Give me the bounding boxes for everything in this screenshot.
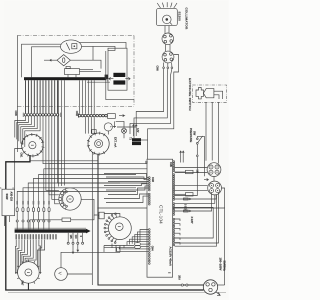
- wire CN6 lead 2: [167, 67, 169, 69]
- connector P3 receptacle: [59, 188, 81, 210]
- voltmeter V: [55, 268, 68, 281]
- wire bundle CN8 to P3 region: [43, 116, 120, 164]
- transformer T2: [132, 138, 141, 141]
- connector strip CN8: [23, 113, 61, 117]
- wire CTL to D 1: [175, 167, 208, 169]
- svg-text:180~260V: 180~260V: [218, 258, 222, 271]
- svg-text:CN5: CN5: [169, 162, 172, 167]
- wire diamond left: [44, 59, 57, 61]
- connector P2 receptacle: [88, 133, 109, 154]
- CTL right pin column: [173, 161, 175, 163]
- wire T1 taps: [112, 244, 124, 253]
- exposure switch enclosure: [193, 85, 227, 102]
- terminal number labels: [15, 234, 17, 239]
- svg-text:CN4: CN4: [151, 246, 154, 251]
- connector D hand-switch: [207, 163, 221, 177]
- svg-text:SW: SW: [192, 131, 196, 136]
- terminal strip bus: [15, 227, 86, 229]
- wire exposure lead 2: [211, 102, 213, 160]
- wire bundle bar to CN2: [79, 80, 81, 114]
- indicator lamp: [122, 128, 127, 133]
- wire filament box to bar: [68, 75, 76, 78]
- wire bundle terminals to P4: [14, 240, 17, 274]
- wire node x93: [92, 46, 94, 60]
- wire CN6 lead 1: [163, 67, 165, 69]
- svg-text:COLLIMATOR: COLLIMATOR: [184, 8, 188, 30]
- wire E to enclosure edge: [222, 188, 225, 208]
- svg-text:S1200: S1200: [177, 12, 181, 22]
- fuse F2 pair: [141, 243, 148, 245]
- wire tube anode right: [80, 42, 127, 48]
- cassette plate 1: [113, 73, 125, 77]
- terminal taps 105 110 0: [67, 233, 69, 242]
- arrow pair up T2: [133, 125, 135, 137]
- wire bundle CTL left to T1: [104, 174, 148, 178]
- svg-text:CN8: CN8: [14, 111, 18, 117]
- wire CTL to D 2: [175, 172, 208, 174]
- connector plug A under collimator: [162, 33, 174, 45]
- pressure switch: [196, 138, 198, 140]
- wire CN6 lead 4: [148, 55, 179, 160]
- svg-text:AC115V 40mA: AC115V 40mA: [169, 247, 173, 267]
- svg-text:CTL-104: CTL-104: [158, 205, 164, 224]
- x-ray tube V1 envelope: [61, 40, 82, 53]
- wire bundle bar to CN8: [25, 80, 27, 113]
- power unit enclosure: [97, 207, 147, 209]
- tube-stand enclosure dash-dot border: [17, 36, 134, 107]
- wire filament box right: [80, 70, 102, 72]
- wire voltmeter right: [67, 273, 92, 275]
- wire exposure contacts: [214, 91, 223, 99]
- svg-text:EXPOSURE SWITCH: EXPOSURE SWITCH: [188, 78, 192, 111]
- collimator lamp S1200 box: [156, 9, 177, 26]
- wire heavy supply conductor L1: [6, 155, 204, 290]
- connector P1 receptacle: [22, 134, 44, 156]
- svg-text:1M: 1M: [195, 170, 198, 173]
- svg-text:CN2: CN2: [75, 111, 79, 117]
- wire exposure lead 1: [205, 102, 207, 161]
- svg-text:105: 105: [69, 235, 72, 240]
- wire lamp box to connector: [165, 26, 169, 34]
- wire heavy supply conductor L2: [98, 154, 204, 285]
- wire bundle CN8 to P1: [15, 116, 26, 138]
- filament transformer box: [65, 69, 80, 75]
- junction box R2: [99, 212, 104, 219]
- wire fan middle distribution: [49, 164, 147, 206]
- svg-text:X RAY: X RAY: [190, 217, 193, 224]
- svg-text:CN1: CN1: [20, 153, 23, 158]
- wire exposure lead 3: [217, 102, 219, 163]
- svg-text:A3S-210: A3S-210: [10, 192, 13, 202]
- relay SSW A3S-210: [2, 189, 15, 216]
- svg-text:CN7: CN7: [21, 281, 24, 286]
- arrow pair up CTL: [180, 151, 182, 163]
- connector P4 receptacle: [18, 262, 40, 284]
- film cassette box: [108, 48, 127, 90]
- connector E hand-switch: [208, 181, 222, 195]
- wire diamond right: [70, 60, 101, 68]
- wire bundle CTL lower-left: [140, 230, 148, 243]
- cassette plate 2: [113, 80, 125, 84]
- wire CN6 lead 3: [171, 67, 173, 69]
- node test point 1: [104, 123, 112, 131]
- wire CTL right stubs: [175, 219, 180, 221]
- CTL left pin group CN3: [148, 177, 150, 179]
- wire P3 right: [81, 199, 97, 215]
- arrow into E: [204, 178, 208, 180]
- svg-text:CN3: CN3: [151, 177, 154, 182]
- svg-text:1: 1: [109, 126, 113, 128]
- wire tube anode lower: [82, 46, 116, 50]
- collimator lamp rays: [157, 2, 177, 8]
- svg-text:20A: 20A: [178, 275, 182, 280]
- wire tube cathode to HV bar: [32, 47, 61, 77]
- bottom frame line: [8, 291, 226, 293]
- wire CTL to E 1: [175, 184, 208, 186]
- wire bundle bar to P3: [58, 80, 60, 186]
- connector strip CN2: [77, 113, 79, 117]
- wire D to E: [213, 177, 215, 182]
- svg-text:SSW: SSW: [5, 194, 9, 200]
- svg-text:110: 110: [74, 235, 77, 240]
- plug component K2: [184, 210, 189, 212]
- svg-text:PRESSURE: PRESSURE: [189, 128, 193, 143]
- autotransformer T1: [109, 217, 132, 240]
- resistor X-RAY: [186, 193, 194, 196]
- svg-text:50/60Hz: 50/60Hz: [223, 261, 227, 272]
- connector plug B CN6: [162, 51, 174, 63]
- svg-text:3 SEC: 3 SEC: [184, 204, 187, 211]
- controller CTL-104 box: [147, 159, 173, 277]
- svg-text:EXT. mA: EXT. mA: [113, 137, 117, 148]
- fuse 20A: [181, 284, 183, 286]
- wire CTL to E 2: [175, 190, 208, 192]
- CTL left pin group CN1: [148, 229, 150, 231]
- wire bundle CN2 to P2: [84, 117, 86, 133]
- svg-text:CN6: CN6: [156, 66, 160, 72]
- wire voltmeter top: [61, 252, 120, 267]
- wire T2 right: [141, 139, 148, 141]
- wire CTL to E links: [175, 195, 217, 200]
- resistor R block: [62, 218, 71, 221]
- wire cassette left: [106, 51, 134, 100]
- mains plug: [203, 280, 217, 294]
- wire connector A to B: [166, 45, 171, 52]
- resistor 1M: [186, 170, 194, 173]
- plug component K1: [184, 198, 189, 200]
- filament selector diamond: [57, 55, 70, 66]
- pilot lamp row: [16, 208, 18, 212]
- HV cable bus bar: [24, 77, 107, 80]
- exposure switch actuator: [196, 88, 204, 99]
